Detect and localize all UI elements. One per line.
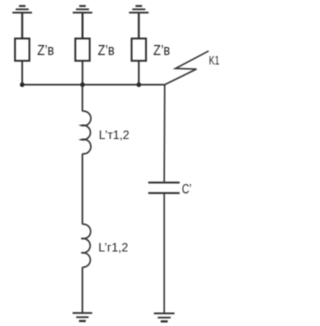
svg-text:L’г1,2: L’г1,2: [98, 241, 128, 255]
wire: Z'в box 3 to bus: [138, 61, 140, 85]
wire: top ground 2 to Z'в box 2: [82, 13, 84, 39]
node: bus junction branch 1: [20, 82, 25, 87]
node: bus junction branch 2: [80, 82, 85, 87]
ground (bottom of inductor branch): [73, 313, 93, 321]
svg-text:L’т1,2: L’т1,2: [99, 128, 130, 142]
inductor L'г1,2: [81, 224, 90, 267]
ground (bottom of capacitor branch): [154, 313, 175, 321]
svg-text:C’: C’: [182, 181, 192, 196]
ground (top of branch 2, inverted earth): [73, 6, 93, 13]
wire: horizontal bus: [22, 84, 165, 86]
ground (top of branch 3, inverted earth): [129, 6, 149, 13]
wire: top ground 3 to Z'в box 3: [138, 13, 140, 39]
wire: bus corner to capacitor C': [163, 85, 166, 182]
svg-text:Z’в: Z’в: [37, 42, 54, 59]
wire: C' to bottom ground: [163, 194, 165, 313]
wire: top ground 1 to Z'в box 1: [21, 13, 23, 39]
wire: Z'в box 1 to bus: [21, 61, 23, 85]
node: bus junction branch 3: [137, 82, 142, 87]
wire: L'г1,2 to bottom ground: [81, 267, 83, 313]
impedance Z'в (branch 2): [75, 39, 89, 61]
wire: L'т1,2 to L'г1,2: [81, 154, 83, 224]
inductor L'т1,2: [81, 111, 91, 154]
switch K1 (short-circuit bolt): [165, 51, 209, 85]
capacitor C': [148, 183, 179, 194]
wire: bus to inductor L'т1,2: [81, 85, 83, 112]
ground (top of branch 1, inverted earth): [12, 6, 32, 13]
svg-text:K1: K1: [209, 53, 220, 67]
impedance Z'в (branch 1): [15, 39, 29, 61]
svg-text:Z’в: Z’в: [98, 42, 115, 59]
wire: Z'в box 2 to bus: [82, 61, 84, 85]
svg-text:Z’в: Z’в: [153, 42, 170, 59]
impedance Z'в (branch 3): [132, 39, 146, 61]
